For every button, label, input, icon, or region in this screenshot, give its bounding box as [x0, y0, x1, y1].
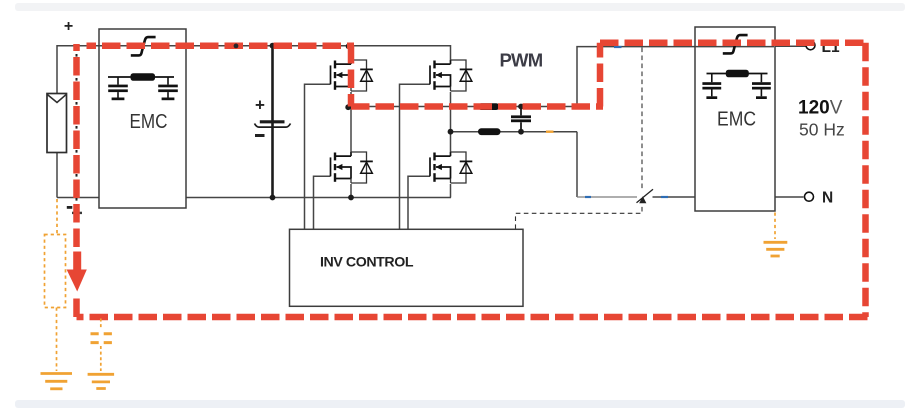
red path left vertical upper part [73, 44, 80, 247]
label - of DC link capacitor [255, 134, 265, 137]
fuse / breaker icon in right EMC [723, 35, 748, 53]
wire DC- from source down [56, 153, 58, 198]
small dark tick on red path near source minus [72, 212, 82, 214]
svg-text:+: + [64, 18, 73, 35]
Y-capacitor right of right EMC [760, 74, 762, 83]
wire right EMC to N terminal [774, 196, 804, 198]
node dot left bridge source rail [348, 195, 354, 201]
wire left bridge vertical (drain top-left MOSFET) [350, 46, 352, 60]
wire right bridge midpoint vertical [450, 92, 452, 152]
inductor L upper output filter [478, 103, 500, 110]
orange dashed line source minus to parasitic impedance [56, 199, 58, 234]
wire gate top-right MOSFET to control [400, 84, 431, 229]
red path top-right horizontal [600, 39, 866, 46]
svg-text:PWM: PWM [500, 50, 543, 71]
svg-text:N: N [822, 190, 833, 207]
Y-capacitor right of left EMC [167, 77, 169, 85]
orange tick on lower output line [546, 131, 554, 133]
blue dash artifacts on wires [585, 47, 668, 197]
svg-text:EMC: EMC [717, 108, 756, 131]
transistor Q3 bottom-left MOSFET [331, 152, 373, 183]
red path bottom horizontal [77, 314, 868, 321]
red leakage current arrow [67, 252, 87, 292]
PV source symbol (rectangle with chevron) [47, 94, 67, 153]
capacitor DC link plates [255, 122, 291, 127]
Y-capacitor left of left EMC [117, 77, 119, 85]
wire DC+ from source to top rail [57, 46, 99, 94]
wire gate bottom-left MOSFET to control [314, 176, 331, 229]
wire lower AC output line [451, 131, 578, 133]
top page band [15, 3, 905, 11]
wire lower output down to neutral run [576, 132, 578, 197]
wire left bridge midpoint vertical [350, 92, 352, 152]
label - source negative [67, 206, 73, 209]
node dot DC link cap bottom [270, 195, 276, 201]
wire bottom DC- rail [57, 197, 451, 199]
ground symbol left (orange) [41, 374, 73, 389]
red path top-left horizontal [87, 42, 355, 49]
bottom page band [15, 400, 905, 408]
common-mode choke + Y-caps icon in left EMC [108, 73, 178, 100]
parasitic capacitance dashed (orange) below red path [91, 319, 113, 372]
svg-text:50 Hz: 50 Hz [799, 120, 845, 140]
blue dash on neutral run right of switch [661, 196, 668, 198]
dashed control line from top rail to switch [641, 48, 643, 192]
svg-text:EMC: EMC [130, 110, 168, 133]
ground symbol right (orange) [764, 242, 788, 256]
EMC filter block left [99, 29, 186, 208]
relay switch blade [637, 189, 654, 203]
red path upper output horizontal [351, 103, 603, 110]
parasitic impedance dashed rectangle [45, 235, 66, 308]
wire through left EMC block [99, 45, 186, 47]
relay actuator arrow [639, 196, 646, 203]
red path left bridge vertical [348, 45, 355, 107]
wire neutral run to switch [577, 196, 637, 198]
common-mode choke + Y-caps icon in right EMC [702, 70, 770, 99]
node dot filter cap top [518, 104, 524, 110]
node dot right bridge midpoint [448, 129, 454, 135]
dashed control line from INV CONTROL to switch [516, 206, 643, 230]
wire upper output up to line L [577, 47, 695, 107]
blue dash on top right wire [614, 46, 622, 48]
INV CONTROL block [290, 229, 524, 306]
node dot bridge top-left [346, 43, 352, 49]
red path right vertical down [862, 43, 869, 317]
blue dash on neutral run left of switch [585, 196, 591, 198]
terminal N [805, 192, 814, 201]
wire gate top-left MOSFET to control [305, 84, 331, 229]
black dashed trace under red leakage path (left vertical) [76, 48, 78, 222]
Y-capacitor left of right EMC [711, 74, 713, 83]
inductor L lower output filter [478, 128, 501, 135]
transistor Q4 bottom-right MOSFET [430, 152, 472, 183]
transistor Q1 top-left MOSFET [331, 60, 373, 91]
wire top DC+ rail EMC to bridge [186, 45, 351, 47]
red path left vertical lower part [73, 294, 80, 317]
orange dashed line impedance to ground [56, 308, 58, 372]
node dot on top rail at x=236 [234, 44, 239, 49]
wire left bridge source to DC- rail [350, 184, 352, 198]
svg-text:120V: 120V [798, 98, 843, 119]
orange dashed line right EMC to ground [774, 213, 776, 240]
wire switch to right EMC [653, 196, 696, 198]
ground symbol middle (orange) [88, 374, 115, 388]
fuse / breaker icon in left EMC [131, 37, 156, 55]
wire upper AC output line [351, 106, 577, 108]
red leakage current path [77, 43, 868, 317]
wire through right EMC block [695, 46, 774, 48]
terminal L1 [806, 41, 815, 50]
wire gate bottom-right MOSFET to control [408, 176, 430, 229]
red path up to top-right [597, 43, 604, 107]
wire top rail to right half-bridge drain [351, 46, 451, 60]
node dot DC link cap top [270, 43, 276, 49]
node dot left bridge midpoint [345, 104, 351, 110]
wire right EMC to L1 terminal [774, 45, 807, 47]
EMC filter block right [695, 27, 775, 211]
transistor Q2 top-right MOSFET [430, 60, 472, 91]
capacitor DC link vertical lead [271, 46, 274, 198]
svg-text:+: + [255, 96, 265, 115]
node junction dots [270, 43, 524, 201]
svg-text:INV CONTROL: INV CONTROL [320, 255, 414, 271]
capacitor AC filter [511, 107, 531, 132]
wire right bridge source to DC- rail [450, 184, 452, 198]
node dot filter cap bottom [518, 129, 524, 135]
